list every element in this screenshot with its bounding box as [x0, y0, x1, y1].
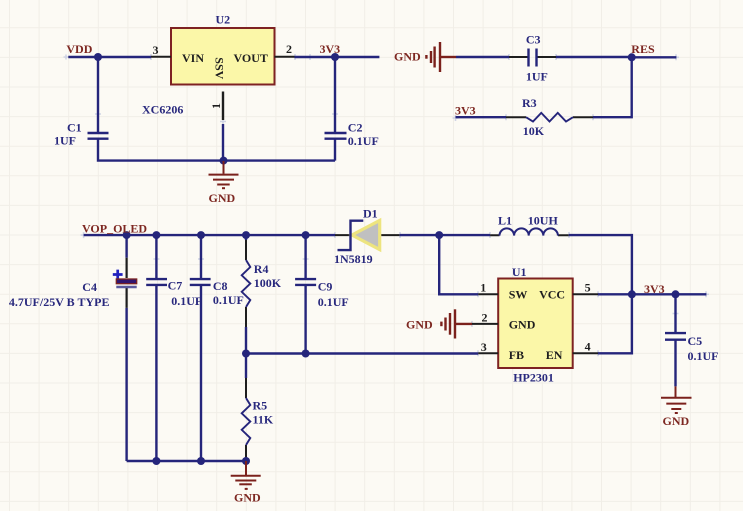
capacitor C1 [88, 133, 109, 139]
node 3V3 junction [331, 53, 339, 61]
node rail-GND junction [220, 157, 228, 165]
wire 3V3 to R3 [456, 116, 507, 118]
svg-text:U2: U2 [216, 13, 231, 27]
svg-text:5: 5 [585, 281, 591, 295]
capacitor C2 [325, 133, 347, 139]
svg-text:3V3: 3V3 [320, 42, 341, 56]
ground GND below R5 [231, 461, 261, 489]
svg-text:U1: U1 [512, 265, 527, 279]
svg-text:GND: GND [406, 318, 433, 332]
svg-text:3V3: 3V3 [455, 104, 476, 118]
chip U1 body [498, 279, 573, 369]
R4 branch wire [245, 235, 247, 353]
svg-text:C5: C5 [688, 334, 703, 348]
wire VDD down to C1 [97, 57, 99, 133]
wire VOP_OLED rail [84, 234, 335, 236]
inductor L1 pins [490, 234, 569, 236]
capacitor C8 [190, 279, 211, 285]
wire C1 bottom to rail [98, 139, 335, 161]
wire GND to C3 [456, 56, 509, 58]
diode D1 body [352, 220, 380, 249]
svg-text:0.1UF: 0.1UF [688, 349, 719, 363]
svg-text:3: 3 [153, 43, 159, 57]
svg-text:GND: GND [509, 318, 536, 332]
svg-text:D1: D1 [363, 206, 378, 220]
wire L1 to VCC corner [569, 235, 632, 294]
svg-text:RES: RES [631, 42, 655, 56]
svg-text:0.1UF: 0.1UF [348, 134, 379, 148]
C4 branch wire [125, 235, 127, 461]
svg-text:GND: GND [209, 191, 236, 205]
wire VDD to U2 VIN [68, 56, 151, 58]
svg-text:3V3: 3V3 [644, 282, 665, 296]
ground GND below U2 [209, 161, 239, 188]
svg-text:GND: GND [234, 491, 261, 505]
node RES junction [628, 53, 636, 61]
svg-text:0.1UF: 0.1UF [213, 293, 244, 307]
wire C2 branch [334, 57, 336, 161]
svg-text:R5: R5 [253, 399, 268, 413]
wire EN loop [598, 294, 632, 353]
node SW junction [435, 231, 443, 239]
svg-text:VOP_OLED: VOP_OLED [82, 221, 147, 235]
node VDD junction [94, 53, 102, 61]
svg-text:0.1UF: 0.1UF [318, 295, 349, 309]
inductor L1 [500, 228, 558, 235]
svg-text:1: 1 [480, 281, 486, 295]
pin 2 VOUT [275, 56, 295, 58]
resistor R3 pins [506, 116, 593, 118]
svg-text:R3: R3 [522, 96, 537, 110]
wire diode to L1 [400, 234, 490, 236]
node C5 junction [672, 290, 680, 298]
capacitor C3 [529, 49, 537, 67]
pin 4 EN [573, 352, 598, 354]
node FB junctions [242, 350, 250, 358]
pin 3 VIN [151, 56, 171, 58]
svg-text:L1: L1 [498, 214, 512, 228]
C8 branch wire [200, 235, 202, 461]
wire VSS to rail [222, 124, 224, 161]
pin 1 VSS [222, 92, 224, 121]
capacitor C5 [665, 333, 686, 340]
bottom rail [127, 460, 246, 462]
svg-text:SSV: SSV [212, 57, 226, 79]
svg-text:3: 3 [481, 340, 487, 354]
power port GND (left-pointing bars) [426, 42, 456, 72]
diode D1 pins [335, 234, 400, 236]
wire RES down to R3 [593, 57, 632, 117]
svg-text:1UF: 1UF [54, 133, 76, 147]
node dots bottom rail [152, 457, 160, 465]
capacitor C7 [146, 279, 167, 285]
svg-text:1UF: 1UF [526, 69, 548, 83]
svg-text:SW: SW [509, 287, 528, 301]
wire C3 to RES [556, 56, 632, 58]
svg-text:C7: C7 [168, 279, 183, 293]
capacitor C9 [295, 279, 316, 285]
svg-text:R4: R4 [254, 262, 269, 276]
resistor R4 [242, 260, 251, 307]
svg-text:VCC: VCC [539, 287, 565, 301]
wire RES stub right [632, 56, 677, 58]
pin 1 SW [478, 293, 498, 295]
svg-text:100K: 100K [254, 276, 282, 290]
svg-text:1N5819: 1N5819 [334, 252, 373, 266]
svg-text:XC6206: XC6206 [142, 103, 183, 117]
capacitor C4 polarized [113, 270, 123, 280]
svg-text:4.7UF/25V B TYPE: 4.7UF/25V B TYPE [9, 295, 110, 309]
svg-text:C1: C1 [67, 120, 82, 134]
power port GND at pin 2 [441, 309, 472, 338]
svg-text:C9: C9 [318, 279, 333, 293]
svg-text:10UH: 10UH [528, 214, 559, 228]
svg-text:EN: EN [546, 348, 563, 362]
svg-text:VDD: VDD [66, 42, 92, 56]
C5 branch wire [674, 294, 676, 386]
wire SW node down to pin1 [439, 235, 478, 294]
middle rail FB wire [246, 352, 478, 354]
node 3V3 junction [628, 290, 636, 298]
node dots on rail [123, 231, 131, 239]
svg-text:0.1UF: 0.1UF [171, 294, 202, 308]
svg-text:C8: C8 [213, 279, 228, 293]
svg-text:GND: GND [394, 49, 421, 63]
svg-text:C4: C4 [82, 280, 97, 294]
svg-text:C3: C3 [526, 32, 541, 46]
svg-text:4: 4 [585, 339, 591, 353]
pin 3 FB [478, 352, 498, 354]
resistor R3 [526, 113, 573, 122]
capacitor C3 pins [509, 56, 556, 58]
hotspot ghost marks [64, 54, 710, 356]
wire VCC to 3V3 [598, 293, 632, 295]
svg-text:1: 1 [209, 103, 223, 109]
svg-text:HP2301: HP2301 [513, 371, 554, 385]
svg-text:2: 2 [286, 42, 292, 56]
op-amp U2 body [171, 28, 275, 85]
svg-text:2: 2 [482, 310, 488, 324]
wire VOUT to 3V3 [295, 56, 380, 58]
svg-text:10K: 10K [523, 124, 545, 138]
svg-text:11K: 11K [253, 413, 274, 427]
svg-text:FB: FB [509, 348, 524, 362]
ground GND below C5 [661, 386, 692, 413]
pin 2 GND [472, 323, 498, 325]
resistor R5 [245, 354, 247, 379]
svg-text:GND: GND [663, 414, 690, 428]
diode D1 cathode [338, 221, 364, 250]
C9 branch wire [304, 235, 306, 353]
svg-text:VIN: VIN [182, 51, 204, 65]
pin 5 VCC [573, 293, 598, 295]
svg-text:VOUT: VOUT [234, 51, 268, 65]
svg-text:C2: C2 [348, 120, 363, 134]
C7 branch wire [155, 235, 157, 461]
wire 3V3 to C5 [632, 293, 707, 295]
